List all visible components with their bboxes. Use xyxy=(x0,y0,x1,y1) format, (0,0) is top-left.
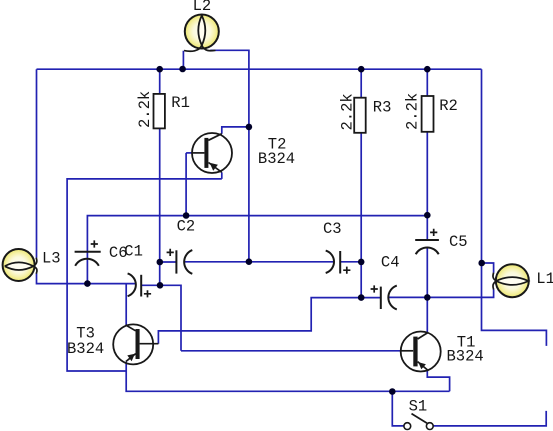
svg-text:C5: C5 xyxy=(449,233,468,251)
svg-text:L2: L2 xyxy=(193,0,212,15)
svg-text:C2: C2 xyxy=(177,217,196,235)
svg-text:2.2k: 2.2k xyxy=(136,91,154,128)
svg-text:C4: C4 xyxy=(381,253,400,271)
svg-text:L1: L1 xyxy=(536,270,553,288)
svg-text:S1: S1 xyxy=(409,397,428,415)
svg-text:C1: C1 xyxy=(124,242,143,260)
svg-text:R3: R3 xyxy=(373,98,392,116)
svg-text:2.2k: 2.2k xyxy=(403,93,421,130)
svg-text:R1: R1 xyxy=(171,94,190,112)
svg-text:L3: L3 xyxy=(42,250,61,268)
svg-text:B324: B324 xyxy=(67,340,104,358)
svg-text:R2: R2 xyxy=(439,97,458,115)
svg-text:2.2k: 2.2k xyxy=(338,93,356,130)
svg-text:B324: B324 xyxy=(447,347,484,365)
svg-text:B324: B324 xyxy=(258,150,295,168)
svg-text:C3: C3 xyxy=(323,220,342,238)
